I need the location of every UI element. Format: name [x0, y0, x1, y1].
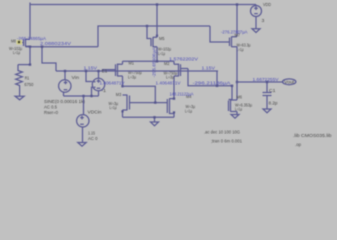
svg-text:L=3µ: L=3µ [166, 75, 174, 81]
wire M5 drain to tail [156, 47, 158, 62]
wire diode tie M3 [123, 86, 156, 102]
svg-text:M1: M1 [129, 60, 135, 66]
node E1 in+ [85, 70, 87, 72]
node M8 drain [29, 46, 31, 48]
wire ground stub [154, 117, 156, 122]
node bias M5 tap [146, 25, 148, 27]
svg-text:3: 3 [262, 18, 265, 24]
node gate tie [154, 101, 156, 103]
wire bottom rail Vin E1 [64, 95, 99, 97]
wire M6 drain [236, 82, 238, 100]
svg-text:L=1µ: L=1µ [235, 107, 242, 113]
wire mirror gate tie [133, 102, 167, 104]
node M3 drain tie [121, 85, 123, 87]
svg-text:M3: M3 [116, 92, 122, 98]
wire tail rail [123, 60, 175, 62]
svg-text:AC 0: AC 0 [88, 136, 98, 142]
wire M5 source from rail [156, 5, 158, 37]
wire M8 source drop [29, 3, 31, 39]
ground VDD [252, 29, 260, 33]
ground C1 [263, 109, 271, 113]
svg-text:Vin: Vin [72, 75, 80, 81]
node bias jog [41, 46, 43, 48]
node C1 tap [266, 81, 268, 83]
wire bias to M7 gate [210, 26, 230, 42]
svg-text:L=1µ: L=1µ [185, 108, 192, 114]
svg-text:8.2p: 8.2p [269, 100, 278, 106]
svg-text:M8: M8 [11, 39, 16, 45]
svg-text:Vout: Vout [284, 80, 295, 86]
transistor M6 [229, 100, 238, 115]
svg-text:1.15V: 1.15V [202, 65, 216, 71]
flag Vout [283, 79, 296, 86]
wire M8 drain down [29, 47, 31, 65]
svg-text:.ac dec 10 100 10G: .ac dec 10 100 10G [204, 129, 240, 135]
wire M1 gate jog [103, 70, 110, 71]
svg-text:L=3µ: L=3µ [128, 75, 136, 81]
node M4 drain [173, 97, 175, 99]
transistor M5 [151, 35, 158, 48]
wire M2 gate jog [188, 69, 217, 86]
wire output [237, 81, 284, 83]
svg-text:-276.27807µA: -276.27807µA [221, 30, 248, 36]
svg-text:R1: R1 [25, 76, 30, 82]
node E1 in- [90, 95, 92, 97]
node VDCin tap [82, 95, 84, 97]
transistor M1 [109, 61, 123, 86]
svg-text:1.15: 1.15 [88, 130, 95, 136]
ground below R1 [15, 96, 24, 100]
transistor M8 [21, 39, 30, 47]
ground VDCin [78, 143, 86, 147]
node R1 top [29, 63, 31, 65]
wire E1 in+ [86, 71, 92, 82]
wire mirror source rail [123, 116, 175, 118]
wire M7 source [236, 5, 238, 37]
node rail M7 [236, 3, 238, 5]
svg-text:M5: M5 [159, 36, 165, 42]
svg-text:-296.21136µA: -296.21136µA [193, 81, 232, 87]
svg-text:Rser=0: Rser=0 [44, 110, 58, 116]
transistor M3 mirrored [123, 95, 134, 118]
node rail M5 [156, 3, 158, 5]
wire bias to M5 gate [147, 26, 151, 39]
wire E1 in- [92, 87, 94, 96]
svg-text:AC 0.5: AC 0.5 [44, 105, 57, 111]
svg-text:VDD: VDD [263, 2, 271, 8]
svg-text:M2: M2 [164, 61, 170, 67]
source VDCin [77, 96, 89, 143]
node E1 rail [97, 70, 99, 72]
transistor M2 mirrored [174, 61, 188, 98]
node ground stub [153, 116, 155, 118]
svg-text:.lib CMOS035.lib: .lib CMOS035.lib [293, 133, 332, 139]
wire M8 drain to bias [26, 46, 99, 48]
svg-text:L=1µ: L=1µ [13, 50, 20, 56]
source E1 [92, 71, 104, 96]
svg-text:VDCin: VDCin [88, 109, 102, 115]
wire M7 drain to out [236, 47, 238, 82]
ground M6 [231, 115, 239, 119]
transistor M7 [230, 37, 238, 48]
node tail [156, 60, 158, 62]
wire bias vertical up [98, 26, 210, 47]
source Vin [59, 71, 71, 96]
yellow marker [17, 40, 23, 45]
resistor R1 [16, 65, 23, 97]
svg-text:C1: C1 [269, 88, 276, 94]
svg-text:M6: M6 [237, 94, 243, 100]
node Vout junction [236, 81, 238, 83]
svg-text:6750: 6750 [24, 82, 33, 88]
capacitor C1 [263, 82, 272, 109]
node M2 gate jog [216, 85, 218, 87]
node M4 source [173, 111, 175, 113]
svg-text:L=1µ: L=1µ [110, 105, 117, 111]
svg-text:L=1µ: L=1µ [158, 51, 165, 57]
svg-text:;tran 0 6m 0.001: ;tran 0 6m 0.001 [211, 138, 242, 144]
svg-text:.op: .op [295, 143, 301, 148]
svg-text:148.21122µA: 148.21122µA [170, 91, 195, 97]
wire to M6 gate [217, 86, 232, 100]
svg-text:1.4064871V: 1.4064871V [156, 81, 182, 87]
svg-text:SINE(0 0.00016 1k): SINE(0 0.00016 1k) [44, 99, 85, 105]
ground mirror [151, 122, 159, 126]
node M3 source [121, 110, 123, 112]
wire jog from bias node [42, 47, 56, 71]
wire VDD top rail [30, 4, 256, 6]
wire 1.15V rail [56, 70, 218, 72]
svg-text:-1: -1 [102, 88, 107, 94]
wire to R1 [18, 64, 30, 66]
node Vin rail [64, 70, 66, 72]
svg-text:E1: E1 [102, 69, 108, 75]
source VDD [251, 5, 262, 29]
transistor M4 mirrored [167, 98, 174, 117]
